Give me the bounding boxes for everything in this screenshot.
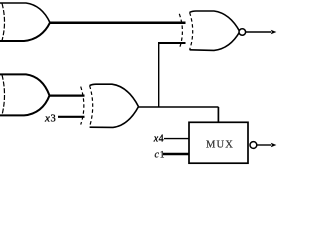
wire W3: x3 input to XOR G3 input 2 [58, 116, 85, 118]
arrowhead A2 [271, 143, 277, 148]
or-gate G2 (middle left, clipped at image edge) [0, 74, 50, 115]
svg-text:c: c [155, 149, 160, 160]
wire W2: G2 output to XOR G3 input 1 [50, 94, 85, 96]
svg-text:3: 3 [51, 113, 56, 124]
svg-text:x: x [44, 112, 50, 124]
wire W1: G1 output to XNOR input 1 [50, 22, 186, 25]
wire W4: G3 output running right [139, 106, 219, 108]
svg-text:1: 1 [160, 150, 165, 160]
wire W5: riser up to XNOR input 2 [158, 43, 160, 107]
svg-text:4: 4 [159, 133, 164, 144]
inversion bubble on MUX output [250, 142, 257, 149]
mux U1 box [189, 122, 248, 163]
svg-text:MUX: MUX [206, 140, 234, 151]
wire W8: G4 output with arrow [246, 31, 271, 33]
wire W6: horizontal into XNOR input 2 [158, 42, 186, 44]
xnor-gate G4 (top right) [179, 11, 240, 50]
wire W10: c1 input into MUX [163, 153, 189, 155]
or-gate G1 (top left, clipped at image edge) [0, 3, 50, 41]
wire W11: MUX output with arrow [257, 144, 271, 146]
xor-gate G3 (middle) [81, 84, 139, 127]
inversion bubble on G4 output [239, 29, 246, 36]
wire W9: x4 input into MUX [164, 138, 189, 140]
wire W7: dropper down into MUX top [217, 107, 219, 123]
arrowhead A1 [271, 30, 277, 35]
